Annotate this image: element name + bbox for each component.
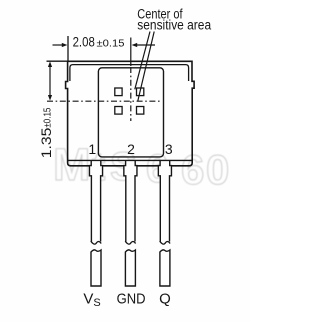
horizontal centerline — [47, 100, 162, 102]
svg-text:±0.15: ±0.15 — [43, 107, 54, 127]
svg-text:M: M — [53, 139, 91, 190]
svg-text:3: 3 — [165, 141, 173, 157]
svg-text:2: 2 — [127, 141, 135, 157]
watermark — [53, 139, 229, 193]
1.35 dimension line with arrows — [49, 65, 51, 98]
svg-text:S: S — [93, 297, 100, 309]
svg-text:±0.15: ±0.15 — [97, 38, 125, 49]
leader line to upper square — [135, 32, 150, 90]
vertical centerline — [130, 38, 132, 67]
svg-text:sensitive area: sensitive area — [137, 18, 211, 33]
svg-text:1.35: 1.35 — [39, 128, 54, 159]
svg-text:0: 0 — [206, 146, 229, 193]
bottom mold line — [68, 159, 192, 161]
lead 1 — [89, 160, 102, 286]
package outer outline — [66, 61, 195, 166]
svg-text:GND: GND — [117, 290, 146, 307]
2.08 left arrow — [53, 44, 63, 46]
svg-text:V: V — [83, 290, 93, 307]
2.08 dimension: left extension line — [67, 36, 69, 62]
lead 3 — [158, 160, 171, 286]
package second outline (mold step) — [70, 65, 189, 81]
lead 2 — [124, 160, 137, 286]
svg-text:1: 1 — [88, 141, 96, 157]
2.08 right arrow — [137, 44, 156, 46]
dimension text 1.35±0.15 (rotated) — [39, 107, 54, 158]
inner rounded rect (die area) — [98, 68, 163, 157]
sensitive-area squares — [115, 88, 122, 96]
1.35 dimension: top extension line — [47, 60, 68, 62]
leader line to lower square — [138, 32, 154, 102]
svg-text:Q: Q — [159, 290, 171, 307]
svg-text:2.08: 2.08 — [73, 34, 95, 49]
